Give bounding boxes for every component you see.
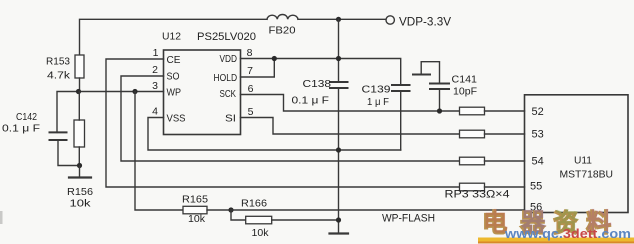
- svg-text:www.qc.3dett.com: www.qc.3dett.com: [504, 227, 631, 241]
- IC U11 MST718BU body: [525, 95, 629, 213]
- svg-text:4.7k: 4.7k: [47, 70, 71, 82]
- inductor FB20: [267, 14, 298, 19]
- FB20 value label: [269, 25, 296, 37]
- svg-text:MST718BU: MST718BU: [560, 169, 614, 181]
- U11 pin numbers: [530, 106, 544, 214]
- node WP branch junction: [132, 89, 137, 94]
- svg-text:HOLD: HOLD: [214, 72, 238, 84]
- svg-text:R166: R166: [241, 198, 267, 210]
- wire SCK (pin 6 to RP3a): [241, 95, 460, 112]
- node R166 / ground column: [336, 217, 341, 222]
- capacitor C141 with stub hook: [413, 62, 449, 111]
- wire VSS (pin 4 to ground net): [148, 118, 401, 151]
- capacitor C139: [392, 85, 410, 150]
- svg-text:52: 52: [532, 106, 544, 118]
- resistor R165: [183, 206, 231, 214]
- wire WP rail (pin 3): [57, 92, 164, 133]
- svg-text:CE: CE: [167, 54, 181, 66]
- svg-text:0.1 μ F: 0.1 μ F: [2, 123, 40, 135]
- node top rail / C138 branch: [336, 17, 341, 22]
- svg-text:4: 4: [152, 106, 158, 118]
- wire VDP-3.3V top rail: [80, 19, 386, 55]
- net label VDP-3.3V: [399, 17, 451, 29]
- svg-text:C142: C142: [16, 111, 37, 123]
- RP3 resistor network label: [445, 189, 510, 201]
- svg-text:5: 5: [248, 106, 254, 118]
- svg-text:R165: R165: [182, 194, 208, 206]
- wire WP branch to R165: [135, 92, 183, 211]
- resistor R156: [74, 92, 85, 166]
- svg-text:FB20: FB20: [269, 25, 296, 37]
- watermark: [478, 209, 634, 244]
- C141 labels: [452, 74, 478, 98]
- svg-text:7: 7: [247, 65, 253, 77]
- scan artifact left edge: [0, 211, 3, 224]
- R156 labels: [67, 186, 93, 210]
- capacitor C142: [50, 132, 80, 165]
- wire HOLD (pin 7 tied to VDD): [241, 59, 275, 78]
- wire C138 to ground rail: [338, 88, 340, 234]
- svg-text:U12: U12: [162, 31, 181, 43]
- wire SO (pin 2 to RP3c): [121, 76, 460, 161]
- wire WP-FLASH to U11 pin 56: [231, 209, 525, 211]
- wire CE (pin 1 to RP3d): [106, 59, 460, 187]
- R153 labels: [46, 56, 71, 82]
- resistor RP3d (pin 55): [460, 183, 525, 191]
- svg-text:WP: WP: [167, 86, 182, 98]
- svg-text:R156: R156: [67, 186, 93, 198]
- C142 labels: [2, 111, 40, 135]
- C139 labels: [362, 84, 391, 109]
- svg-text:6: 6: [248, 83, 254, 95]
- U12 pin names: [167, 53, 238, 124]
- svg-text:WP-FLASH: WP-FLASH: [382, 213, 435, 225]
- node VDD / C138 branch: [336, 56, 341, 61]
- svg-text:PS25LV020: PS25LV020: [197, 31, 256, 43]
- ground (left): [69, 166, 91, 178]
- svg-text:10k: 10k: [70, 198, 92, 210]
- svg-text:VDP-3.3V: VDP-3.3V: [399, 17, 451, 29]
- U12 pin numbers: [152, 47, 254, 118]
- svg-text:8: 8: [247, 47, 253, 59]
- svg-text:C139: C139: [362, 84, 391, 96]
- svg-text:1: 1: [153, 47, 159, 59]
- svg-text:C141: C141: [452, 74, 478, 86]
- svg-text:1 μ F: 1 μ F: [367, 96, 389, 108]
- terminal VDP-3.3V: [386, 16, 394, 24]
- svg-text:VSS: VSS: [167, 112, 186, 124]
- resistor R166: [231, 210, 339, 224]
- svg-text:10pF: 10pF: [453, 86, 477, 98]
- IC U12 PS25LV020 body: [164, 50, 241, 135]
- node VSS / ground column: [336, 147, 341, 152]
- resistor RP3b (pin 53): [460, 130, 525, 138]
- svg-text:U11: U11: [574, 155, 592, 167]
- wire SI (pin 5 to RP3b): [241, 118, 460, 135]
- node C141 / pin52 line: [437, 108, 442, 113]
- U11 part number MST718BU: [560, 169, 614, 181]
- svg-text:10k: 10k: [188, 213, 206, 225]
- R166 labels: [241, 198, 269, 240]
- svg-text:R153: R153: [46, 56, 70, 68]
- node R165/R166/WP-FLASH junction: [228, 207, 233, 212]
- svg-text:SI: SI: [225, 112, 236, 124]
- C138 labels: [292, 78, 332, 107]
- node HOLD/VDD junction: [272, 56, 277, 61]
- ground (bottom): [330, 232, 349, 234]
- capacitor C138: [330, 82, 348, 88]
- node R153/R156 junction: [76, 89, 81, 94]
- net label WP-FLASH: [382, 213, 435, 225]
- svg-text:RP3 33Ω×4: RP3 33Ω×4: [445, 189, 510, 201]
- node C142/R156 junction: [77, 163, 82, 168]
- svg-text:SCK: SCK: [220, 88, 237, 100]
- R165 labels: [182, 194, 208, 226]
- resistor RP3a (pin 52): [460, 107, 525, 115]
- U11 reference label: [574, 155, 592, 167]
- svg-text:53: 53: [532, 129, 544, 141]
- svg-text:55: 55: [530, 181, 542, 193]
- resistor R153: [75, 55, 84, 92]
- svg-text:54: 54: [532, 156, 544, 168]
- wire C138 branch from top rail: [338, 19, 340, 82]
- svg-text:3: 3: [152, 80, 158, 92]
- wire VDD (pin 8): [241, 59, 401, 86]
- U12 part number PS25LV020: [197, 31, 256, 43]
- U12 reference label: [162, 31, 181, 43]
- svg-text:VDD: VDD: [220, 53, 238, 65]
- svg-text:C138: C138: [303, 78, 332, 90]
- resistor RP3c (pin 54): [460, 157, 525, 165]
- svg-text:SO: SO: [167, 70, 180, 82]
- svg-text:10k: 10k: [252, 227, 270, 239]
- svg-text:2: 2: [152, 64, 158, 76]
- svg-text:0.1 μ F: 0.1 μ F: [292, 95, 330, 107]
